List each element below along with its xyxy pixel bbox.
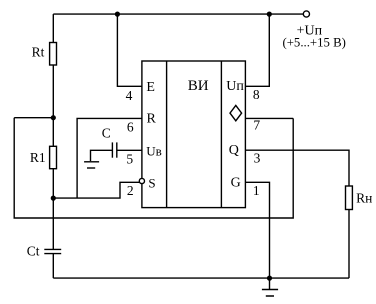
svg-text:(+5...+15 В): (+5...+15 В) — [282, 36, 346, 50]
svg-text:Uв: Uв — [146, 143, 162, 158]
wire pin 8 branch — [245, 14, 269, 86]
svg-text:ВИ: ВИ — [188, 78, 209, 94]
wire Ct bottom lead — [52, 254, 54, 279]
wire pin 4 branch — [117, 14, 141, 86]
svg-text:R1: R1 — [30, 150, 46, 165]
svg-text:1: 1 — [253, 183, 260, 198]
junction dot pin 8 branch on top rail — [267, 12, 272, 17]
capacitor Ct bottom plate — [44, 253, 61, 255]
local ground bar 2 — [87, 167, 95, 169]
svg-text:Rt: Rt — [32, 45, 45, 60]
node B junction dot (R1/Ct/pin2/pin6 net) — [51, 196, 56, 201]
wire node A to left rail — [14, 117, 53, 119]
svg-text:E: E — [146, 80, 155, 95]
wire Rn bottom lead — [348, 210, 350, 279]
resistor Rt — [50, 43, 57, 66]
capacitor C right plate — [116, 142, 118, 157]
svg-text:Rн: Rн — [356, 190, 372, 205]
junction dot pin 4 branch on top rail — [115, 12, 120, 17]
local ground bar 1 — [84, 161, 99, 163]
wire node B to pin 2 step — [53, 182, 139, 198]
svg-text:6: 6 — [127, 120, 134, 135]
wire R1 top lead — [52, 118, 54, 147]
node GND junction dot — [267, 276, 272, 281]
svg-text:2: 2 — [127, 183, 134, 198]
wire left return loop to pin 7 — [14, 118, 293, 218]
node A junction dot (Rt/R1/pin7 net) — [51, 115, 56, 120]
svg-text:8: 8 — [253, 87, 260, 102]
resistor R1 — [50, 146, 57, 168]
svg-text:Ct: Ct — [27, 244, 40, 259]
resistor Rn — [346, 186, 353, 210]
svg-text:G: G — [231, 176, 241, 191]
svg-text:Uп: Uп — [226, 79, 244, 94]
svg-text:3: 3 — [254, 151, 261, 166]
power terminal +Up open circle — [303, 11, 309, 17]
wire Ct top lead — [52, 198, 54, 249]
wire Rt bottom lead to node A — [52, 65, 54, 118]
wire bottom ground rail — [53, 277, 349, 279]
ground symbol — [262, 278, 278, 296]
svg-text:C: C — [102, 125, 111, 140]
svg-text:Q: Q — [229, 143, 239, 158]
wire Rt top lead — [52, 14, 54, 42]
wire R1 bottom lead to node B — [52, 169, 54, 198]
wire pin 5 stub — [117, 149, 142, 151]
wire C left plate to local ground — [91, 150, 113, 161]
wire pin 6 branch — [77, 118, 142, 198]
wire top supply rail — [53, 13, 303, 15]
svg-text:4: 4 — [126, 88, 133, 103]
svg-text:S: S — [148, 176, 155, 191]
IC right column divider — [220, 61, 222, 208]
IC U1 timer body — [142, 61, 246, 208]
wire pin 7 stub — [245, 117, 293, 119]
svg-text:7: 7 — [253, 117, 260, 132]
capacitor C left plate — [111, 142, 113, 157]
wire pin 3 output to Rn — [245, 150, 349, 186]
svg-text:R: R — [147, 112, 157, 127]
wire pin 1 to ground node — [245, 182, 269, 278]
IC left column divider — [166, 61, 168, 208]
diamond open-collector symbol pin 7 — [230, 105, 242, 120]
capacitor Ct top plate — [44, 248, 61, 250]
svg-text:5: 5 — [126, 152, 133, 167]
inversion bubble pin S — [139, 178, 144, 183]
